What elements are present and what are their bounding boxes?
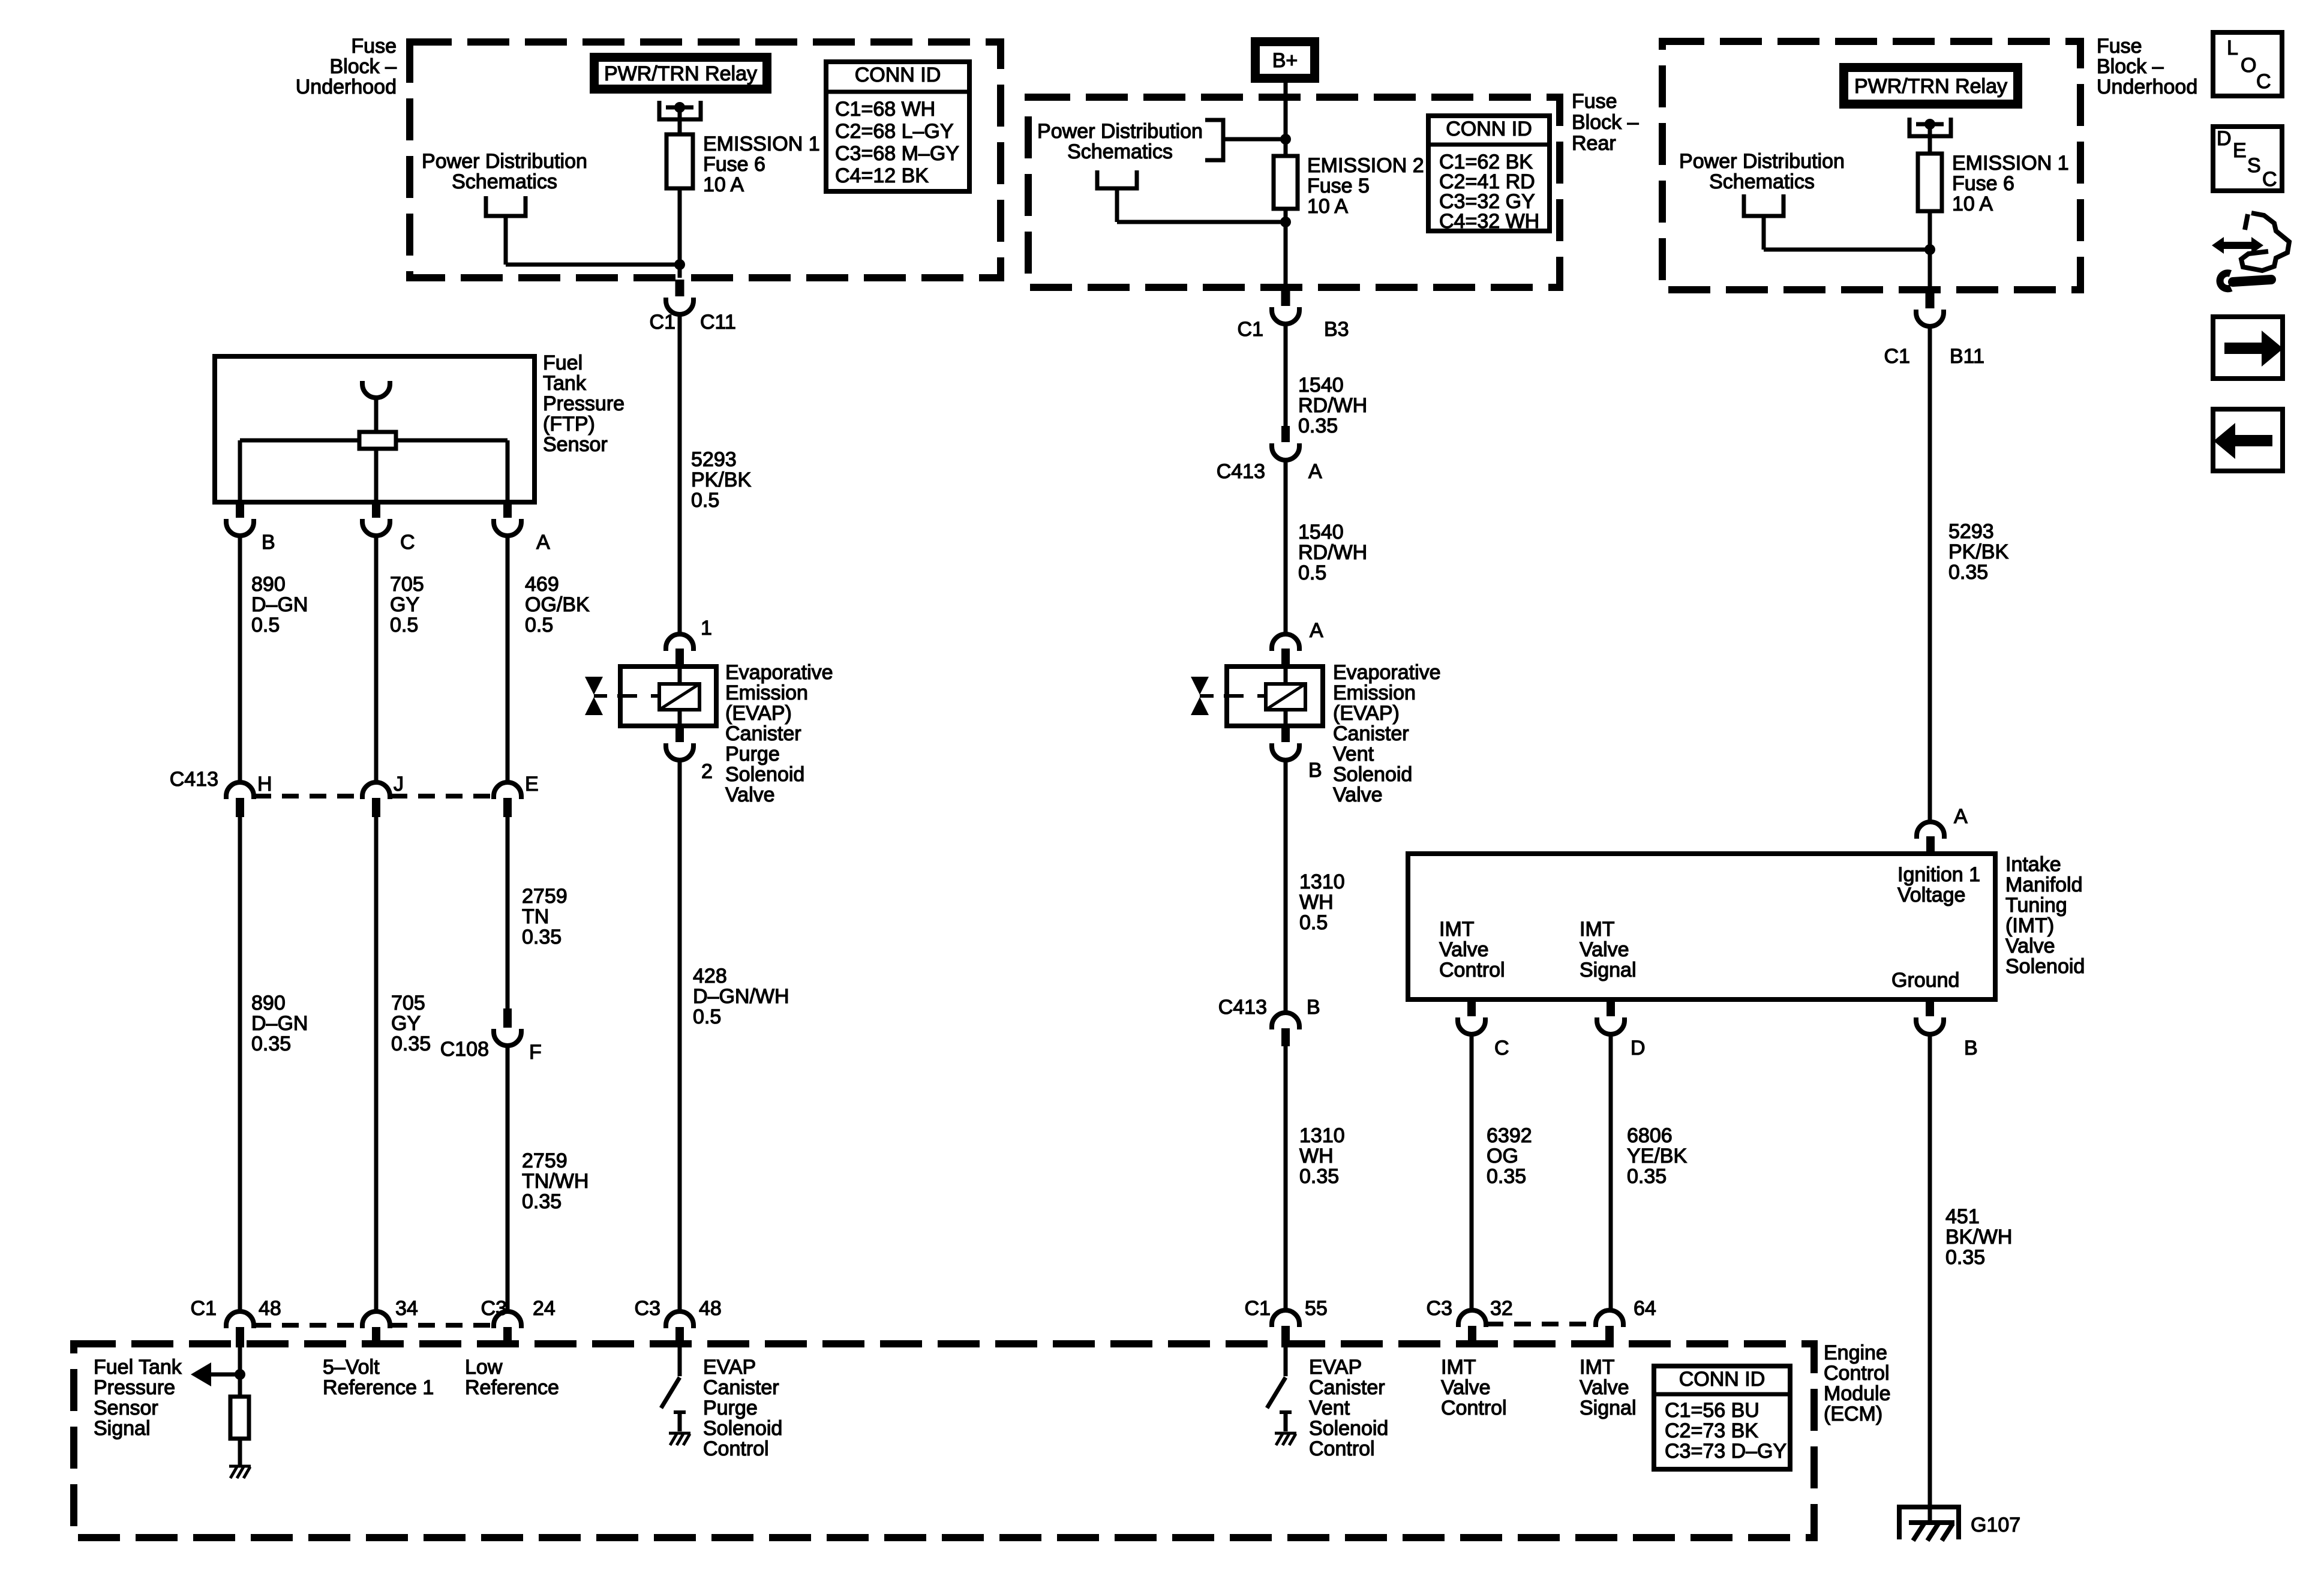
svg-text:Control: Control: [1439, 959, 1505, 981]
svg-text:Solenoid: Solenoid: [2005, 955, 2085, 978]
label: 1540 RD/WH 0.5: [1298, 521, 1367, 584]
label: Fuse Block - Rear: [1572, 90, 1639, 155]
svg-text:C3: C3: [1427, 1297, 1452, 1320]
label 64: [1634, 1297, 1656, 1320]
svg-text:0.35: 0.35: [1945, 1246, 1985, 1269]
svg-text:5293: 5293: [691, 448, 737, 471]
label: Fuse Block - Underhood (left): [296, 35, 397, 98]
svg-text:Valve: Valve: [1580, 1376, 1629, 1399]
svg-text:J: J: [394, 773, 404, 795]
svg-text:C1: C1: [191, 1297, 217, 1320]
label: Low Reference: [465, 1356, 559, 1399]
svg-text:B: B: [1307, 996, 1320, 1019]
svg-text:B3: B3: [1324, 318, 1349, 341]
purge valve symbol (bowtie): [585, 677, 607, 715]
svg-text:C: C: [1494, 1037, 1509, 1059]
labels C108 / F: [440, 1038, 542, 1064]
CONN ID table (fuse block rear): [1428, 116, 1550, 233]
svg-text:451: 451: [1945, 1205, 1980, 1228]
svg-text:1540: 1540: [1298, 521, 1344, 544]
pin A connector (EVAP vent valve): [1272, 634, 1299, 666]
svg-text:Underhood: Underhood: [296, 76, 397, 98]
svg-text:G107: G107: [1971, 1514, 2020, 1536]
labels C3 / 24: [481, 1297, 556, 1320]
svg-text:EMISSION 2: EMISSION 2: [1307, 154, 1424, 177]
label: 890 D-GN 0.5: [251, 573, 308, 637]
off-page bracket (middle below text): [1097, 170, 1286, 222]
ground G107 symbol: [1899, 1507, 1959, 1541]
svg-text:C: C: [400, 531, 415, 554]
wire: 1540 RD/WH 0.5: [1284, 461, 1288, 633]
svg-text:PWR/TRN Relay: PWR/TRN Relay: [1854, 75, 2007, 98]
svg-text:Valve: Valve: [1333, 784, 1383, 806]
svg-text:Underhood: Underhood: [2097, 76, 2197, 98]
pin 1 connector (EVAP purge valve): [666, 634, 693, 666]
svg-text:F: F: [529, 1041, 542, 1064]
label: Evaporative Emission (EVAP) Canister Vent Solenoid Valve: [1333, 661, 1441, 806]
svg-text:0.35: 0.35: [251, 1032, 291, 1055]
IMT pin D connector: [1597, 999, 1625, 1034]
svg-text:0.35: 0.35: [1299, 1165, 1339, 1188]
svg-text:IMT: IMT: [1580, 918, 1615, 941]
svg-text:Evaporative: Evaporative: [1333, 661, 1441, 684]
wire: 428 D-GN/WH 0.5: [678, 761, 682, 1310]
svg-text:48: 48: [699, 1297, 722, 1320]
svg-text:0.35: 0.35: [522, 1190, 562, 1213]
svg-text:Power Distribution: Power Distribution: [1679, 150, 1845, 173]
svg-text:H: H: [257, 773, 272, 795]
label: 705 GY 0.5: [390, 573, 424, 637]
wire: 1540 RD/WH 0.35: [1284, 325, 1288, 426]
label: Power Distribution Schematics (left): [422, 150, 587, 193]
off-page bracket (right): [1744, 194, 1930, 250]
label: 1310 WH 0.35: [1299, 1124, 1345, 1188]
svg-text:E: E: [525, 773, 539, 795]
connector C1/B11 (in-line): [1916, 292, 1944, 326]
label: Fuse Block - Underhood (right): [2097, 35, 2197, 98]
svg-text:5–Volt: 5–Volt: [323, 1356, 380, 1379]
engine control module ECM dashed enclosure: [74, 1344, 1814, 1538]
dashed jumper 32-64: [1487, 1322, 1595, 1326]
signal arrow: [191, 1362, 240, 1386]
wire: 6806 YE/BK 0.35: [1609, 1035, 1613, 1309]
svg-text:Sensor: Sensor: [543, 433, 608, 456]
svg-text:Control: Control: [1441, 1397, 1507, 1419]
junction node below fuse (middle): [1280, 217, 1291, 227]
wire: 890 D-GN 0.5: [238, 537, 242, 781]
purge valve linkage (dashed): [617, 694, 659, 698]
svg-text:Block –: Block –: [330, 55, 397, 78]
svg-text:C: C: [2262, 168, 2277, 191]
svg-text:Fuse: Fuse: [1572, 90, 1617, 113]
FTP pin B connector: [226, 502, 254, 536]
svg-text:IMT: IMT: [1441, 1356, 1476, 1379]
svg-text:0.5: 0.5: [251, 614, 280, 637]
svg-text:Canister: Canister: [725, 722, 801, 745]
svg-text:A: A: [1308, 460, 1322, 483]
wire: ignition to IMT pin A: [1928, 327, 1932, 821]
svg-text:Valve: Valve: [1580, 938, 1629, 961]
connector C413 pin A (in-line): [1272, 426, 1299, 460]
svg-text:Solenoid: Solenoid: [1309, 1417, 1388, 1440]
purge driver switch + ground: [661, 1347, 690, 1445]
label: 2759 TN/WH 0.35: [522, 1149, 588, 1213]
off-page bracket (left): [486, 196, 526, 216]
svg-text:Fuse 6: Fuse 6: [1952, 172, 2014, 195]
svg-text:C3: C3: [635, 1297, 660, 1320]
svg-text:Fuse 5: Fuse 5: [1307, 175, 1370, 197]
svg-text:0.5: 0.5: [1299, 911, 1328, 934]
svg-text:C11: C11: [700, 311, 736, 334]
svg-text:Canister: Canister: [703, 1376, 779, 1399]
svg-text:Control: Control: [703, 1437, 769, 1460]
wire: 2759 TN/WH 0.35: [506, 1047, 510, 1310]
FTP internal wiring: [240, 440, 508, 502]
svg-text:Solenoid: Solenoid: [1333, 763, 1412, 786]
svg-text:Tuning: Tuning: [2005, 894, 2067, 917]
label: 451 BK/WH 0.35: [1945, 1205, 2012, 1269]
label: Evaporative Emission (EVAP) Canister Purge Solenoid Valve: [725, 661, 833, 806]
IMT pin A label: [1954, 805, 1968, 828]
dashed jumper J-E: [391, 794, 493, 798]
label: EMISSION 1 Fuse 6 10 A (left): [703, 133, 820, 196]
svg-text:Purge: Purge: [725, 743, 780, 766]
svg-text:Evaporative: Evaporative: [725, 661, 833, 684]
svg-text:6392: 6392: [1487, 1124, 1532, 1147]
svg-text:Pressure: Pressure: [543, 392, 624, 415]
svg-text:Purge: Purge: [703, 1397, 758, 1419]
svg-text:B: B: [1308, 759, 1322, 782]
label: IMT Valve Control (ECM): [1441, 1356, 1507, 1419]
wire: 469 OG/BK 0.5: [506, 537, 510, 781]
label: Fuel Tank Pressure Sensor Signal: [94, 1356, 182, 1440]
labels C1 / B11: [1884, 345, 1984, 368]
label: Ground: [1891, 969, 1959, 992]
svg-text:34: 34: [395, 1297, 418, 1320]
label: 5293 PK/BK 0.35: [1948, 520, 2008, 584]
vent valve coil: [1266, 667, 1305, 726]
svg-text:PWR/TRN Relay: PWR/TRN Relay: [604, 62, 757, 85]
svg-text:Valve: Valve: [1439, 938, 1489, 961]
svg-text:D–GN: D–GN: [251, 1012, 308, 1035]
wire: bracket stem to junction (left): [506, 216, 680, 265]
label: EMISSION 2 Fuse 5 10 A: [1307, 154, 1424, 218]
svg-text:1310: 1310: [1299, 870, 1345, 893]
svg-text:A: A: [1310, 619, 1323, 642]
ECM internal ground (FTP signal): [229, 1466, 251, 1478]
svg-text:Schematics: Schematics: [1709, 170, 1815, 193]
svg-text:1: 1: [701, 617, 712, 640]
icon: LOC box: [2213, 32, 2282, 96]
svg-text:Rear: Rear: [1572, 132, 1616, 155]
label: Intake Manifold Tuning (IMT) Valve Solenoid: [2005, 853, 2085, 978]
svg-text:RD/WH: RD/WH: [1298, 394, 1367, 417]
wire: 705 GY 0.35: [374, 817, 379, 1310]
ECM pin C3-24 connector: [494, 1311, 521, 1347]
label: IMT Valve Control (solenoid): [1439, 918, 1505, 981]
label: EMISSION 1 Fuse 6 10 A (right): [1952, 152, 2069, 215]
labels C3 / 48 (purge): [635, 1297, 722, 1320]
svg-text:48: 48: [259, 1297, 281, 1320]
svg-text:D: D: [2217, 127, 2232, 150]
label: 705 GY 0.35: [391, 992, 431, 1055]
fuse F6 EMISSION 1 (right): [1918, 154, 1942, 211]
svg-text:Power Distribution: Power Distribution: [422, 150, 587, 173]
dashed jumper H-J: [254, 794, 362, 798]
svg-text:Solenoid: Solenoid: [703, 1417, 782, 1440]
svg-text:32: 32: [1490, 1297, 1513, 1320]
svg-text:Power Distribution: Power Distribution: [1037, 120, 1203, 143]
svg-text:WH: WH: [1299, 891, 1334, 914]
dashed jumper 34-24: [391, 1323, 493, 1328]
svg-text:Reference 1: Reference 1: [323, 1376, 434, 1399]
purge valve coil: [659, 667, 699, 726]
svg-text:Control: Control: [1309, 1437, 1375, 1460]
svg-text:C2=73 BK: C2=73 BK: [1665, 1419, 1758, 1442]
label: EVAP Canister Purge Solenoid Control: [703, 1356, 782, 1460]
svg-text:0.5: 0.5: [525, 614, 553, 637]
svg-text:CONN ID: CONN ID: [855, 64, 941, 86]
pin 1 label: [701, 617, 712, 640]
svg-text:Solenoid: Solenoid: [725, 763, 804, 786]
svg-text:Block –: Block –: [1572, 111, 1639, 134]
IMT pin A connector: [1917, 822, 1944, 854]
svg-text:Module: Module: [1824, 1382, 1891, 1405]
svg-text:0.35: 0.35: [522, 926, 562, 948]
junction node above fuse (middle): [1280, 134, 1291, 145]
label: EVAP Canister Vent Solenoid Control: [1309, 1356, 1388, 1460]
svg-text:(FTP): (FTP): [543, 413, 595, 436]
svg-text:2759: 2759: [522, 1149, 568, 1172]
FTP sensor wiper (connector cup symbol): [362, 381, 390, 432]
wire + junction (FTP signal): [235, 1347, 245, 1380]
svg-text:EVAP: EVAP: [1309, 1356, 1362, 1379]
svg-text:C1: C1: [1884, 345, 1910, 368]
svg-text:428: 428: [693, 965, 727, 987]
ECM pin C3-32 connector: [1458, 1310, 1486, 1347]
label: Ignition 1 Voltage: [1897, 863, 1980, 906]
svg-text:Fuse: Fuse: [2097, 35, 2142, 58]
fuel tank pressure sensor box: [215, 356, 535, 502]
svg-text:Voltage: Voltage: [1897, 884, 1965, 906]
svg-text:0.35: 0.35: [1487, 1165, 1526, 1188]
svg-text:Vent: Vent: [1333, 743, 1374, 766]
svg-text:Vent: Vent: [1309, 1397, 1350, 1419]
svg-text:WH: WH: [1299, 1145, 1334, 1167]
vent driver switch + ground: [1267, 1347, 1296, 1445]
labels C1 / C11: [650, 311, 736, 334]
ECM pin C1-55 connector (vent control): [1272, 1310, 1299, 1347]
svg-text:Low: Low: [465, 1356, 503, 1379]
svg-text:B+: B+: [1272, 49, 1298, 72]
svg-text:Fuse: Fuse: [351, 35, 397, 58]
relay K1 PWR/TRN Relay box (left): [594, 58, 767, 89]
svg-text:1310: 1310: [1299, 1124, 1345, 1147]
label: 1310 WH 0.5: [1299, 870, 1345, 934]
svg-text:Signal: Signal: [1580, 1397, 1637, 1419]
svg-text:GY: GY: [391, 1012, 421, 1035]
svg-text:GY: GY: [390, 593, 419, 616]
svg-text:0.35: 0.35: [1298, 415, 1338, 437]
pin 2 connector (EVAP purge valve): [666, 726, 693, 760]
connector C1/C11 (in-line): [666, 280, 693, 314]
svg-text:Schematics: Schematics: [452, 170, 557, 193]
svg-text:D–GN/WH: D–GN/WH: [693, 985, 789, 1008]
svg-text:C413: C413: [1217, 460, 1265, 483]
FTP pin A connector: [494, 502, 521, 536]
svg-text:0.35: 0.35: [1627, 1165, 1667, 1188]
svg-text:6806: 6806: [1627, 1124, 1673, 1147]
svg-text:C1: C1: [1245, 1297, 1271, 1320]
junction node (right): [1924, 244, 1935, 255]
svg-text:OG/BK: OG/BK: [525, 593, 590, 616]
relay contact symbol (left): [659, 101, 701, 134]
svg-text:C4=12 BK: C4=12 BK: [835, 164, 929, 187]
svg-text:YE/BK: YE/BK: [1627, 1145, 1687, 1167]
svg-text:55: 55: [1305, 1297, 1328, 1320]
CONN ID table (ECM): [1654, 1366, 1790, 1469]
wire: 1310 WH 0.35: [1284, 1046, 1288, 1309]
svg-text:BK/WH: BK/WH: [1945, 1226, 2012, 1248]
pin A label (vent valve): [1310, 619, 1323, 642]
svg-text:Emission: Emission: [725, 682, 808, 704]
svg-text:0.5: 0.5: [693, 1005, 721, 1028]
label: Fuel Tank Pressure (FTP) Sensor: [543, 352, 624, 456]
ECM pin C3-48 connector (purge control): [666, 1311, 693, 1347]
svg-text:Manifold: Manifold: [2005, 873, 2083, 896]
svg-text:B: B: [1964, 1037, 1978, 1059]
svg-text:A: A: [1954, 805, 1968, 828]
svg-text:C108: C108: [440, 1038, 489, 1061]
labels C1 / 55: [1245, 1297, 1328, 1320]
svg-text:Intake: Intake: [2005, 853, 2061, 876]
svg-text:(EVAP): (EVAP): [1333, 702, 1400, 725]
fuse F5 EMISSION 2: [1274, 139, 1298, 209]
svg-text:2759: 2759: [522, 885, 568, 908]
icon: DESC box: [2213, 127, 2282, 191]
svg-text:D–GN: D–GN: [251, 593, 308, 616]
label G107: [1971, 1514, 2020, 1536]
svg-text:C3=68 M–GY: C3=68 M–GY: [835, 142, 959, 165]
svg-text:B: B: [262, 531, 275, 554]
connector C413 pin E: [494, 782, 521, 817]
wire: 1310 WH 0.5: [1284, 761, 1288, 1011]
svg-text:OG: OG: [1487, 1145, 1518, 1167]
svg-text:0.5: 0.5: [1298, 562, 1326, 584]
fuse block - underhood (left) dashed enclosure: [410, 42, 1001, 278]
dashed jumper 48-34: [254, 1323, 362, 1328]
EVAP canister purge solenoid valve box: [620, 667, 716, 726]
svg-text:Engine: Engine: [1824, 1341, 1887, 1364]
svg-text:PK/BK: PK/BK: [691, 469, 751, 491]
svg-text:(ECM): (ECM): [1824, 1403, 1882, 1425]
svg-text:A: A: [536, 531, 550, 554]
label: Engine Control Module (ECM): [1824, 1341, 1891, 1425]
svg-text:IMT: IMT: [1580, 1356, 1615, 1379]
label 34: [395, 1297, 418, 1320]
svg-text:IMT: IMT: [1439, 918, 1475, 941]
wire: fuse to box edge (right): [1928, 211, 1932, 290]
svg-text:EMISSION 1: EMISSION 1: [1952, 152, 2069, 175]
svg-text:PK/BK: PK/BK: [1948, 541, 2008, 563]
svg-text:Fuel: Fuel: [543, 352, 582, 374]
labels C3 / 32: [1427, 1297, 1513, 1320]
label: 6806 YE/BK 0.35: [1627, 1124, 1687, 1188]
labels C413 / B: [1218, 996, 1320, 1019]
svg-text:Ground: Ground: [1891, 969, 1959, 992]
svg-text:(EVAP): (EVAP): [725, 702, 792, 725]
off-page bracket (middle right of text): [1205, 120, 1286, 160]
icon: diagnostic wrench: [2212, 213, 2289, 289]
svg-text:S: S: [2247, 154, 2261, 177]
svg-text:Pressure: Pressure: [94, 1376, 175, 1399]
svg-text:CONN ID: CONN ID: [1446, 118, 1532, 140]
svg-text:B11: B11: [1950, 345, 1984, 368]
EVAP canister vent solenoid valve box: [1227, 667, 1323, 726]
wire: 705 GY 0.5: [374, 537, 379, 781]
svg-text:Fuse 6: Fuse 6: [703, 153, 765, 176]
svg-text:Block –: Block –: [2097, 55, 2164, 78]
label: 469 OG/BK 0.5: [525, 573, 590, 637]
svg-text:C3: C3: [481, 1297, 507, 1320]
svg-text:C3=73 D–GY: C3=73 D–GY: [1665, 1440, 1786, 1463]
svg-text:10 A: 10 A: [1952, 193, 1993, 215]
svg-text:Fuel Tank: Fuel Tank: [94, 1356, 182, 1379]
svg-text:Valve: Valve: [1441, 1376, 1491, 1399]
wire: 2759 TN 0.35: [506, 817, 510, 1008]
wire: fuse to box edge (middle): [1284, 209, 1288, 287]
svg-text:10 A: 10 A: [703, 173, 744, 196]
label: IMT Valve Signal (ECM): [1580, 1356, 1637, 1419]
svg-text:890: 890: [251, 573, 286, 596]
svg-text:Reference: Reference: [465, 1376, 559, 1399]
connector C413 pin J: [362, 782, 390, 817]
label: 2759 TN 0.35: [522, 885, 568, 948]
svg-text:C1=68 WH: C1=68 WH: [835, 98, 935, 121]
svg-text:24: 24: [533, 1297, 556, 1320]
svg-text:O: O: [2241, 54, 2256, 77]
svg-text:C1: C1: [650, 311, 675, 334]
svg-text:705: 705: [390, 573, 424, 596]
label: 890 D-GN 0.35: [251, 992, 308, 1055]
labels C1 / 48: [191, 1297, 281, 1320]
connector C413 pin B: [1272, 1013, 1299, 1046]
svg-text:Tank: Tank: [543, 372, 587, 395]
svg-text:C: C: [2256, 70, 2271, 93]
label: 6392 OG 0.35: [1487, 1124, 1532, 1188]
label: Power Distribution Schematics (right): [1679, 150, 1845, 193]
svg-text:705: 705: [391, 992, 425, 1014]
wire: 890 D-GN 0.35: [238, 817, 242, 1310]
svg-text:Control: Control: [1824, 1362, 1890, 1385]
svg-text:C2=68 L–GY: C2=68 L–GY: [835, 120, 954, 143]
relay contact symbol (right): [1909, 118, 1951, 154]
fuse block - underhood (right) dashed enclosure: [1662, 41, 2080, 290]
svg-text:0.35: 0.35: [1948, 561, 1988, 584]
svg-text:Canister: Canister: [1309, 1376, 1385, 1399]
svg-text:E: E: [2233, 139, 2247, 162]
connector C108 pin F (in-line): [494, 1008, 521, 1046]
IMT pin C connector: [1458, 999, 1485, 1034]
connector C1/B3 (in-line): [1272, 289, 1299, 324]
svg-text:C413: C413: [1218, 996, 1267, 1019]
FTP pin C connector: [362, 502, 390, 536]
wire: 5293 PK/BK 0.5: [678, 316, 682, 633]
svg-text:Ignition 1: Ignition 1: [1897, 863, 1980, 886]
svg-text:CONN ID: CONN ID: [1679, 1368, 1765, 1391]
svg-text:TN: TN: [522, 905, 549, 928]
vent valve linkage (dashed): [1224, 694, 1266, 698]
